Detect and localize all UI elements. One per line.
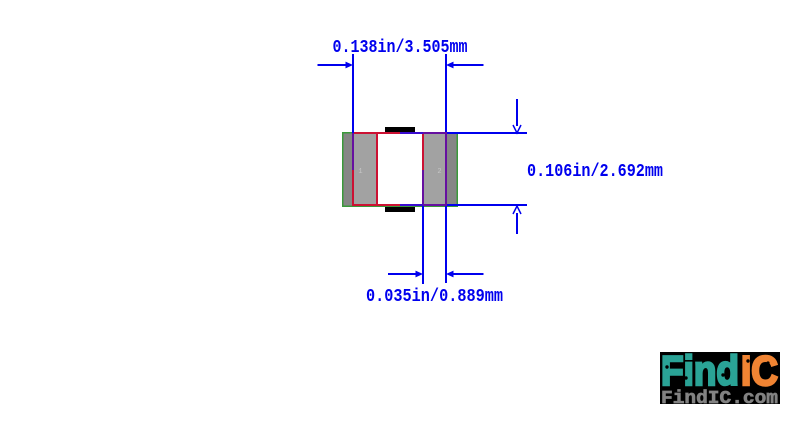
- svg-text:Find: Find: [661, 347, 739, 394]
- svg-text:0.138in/3.505mm: 0.138in/3.505mm: [333, 37, 468, 58]
- svg-text:1: 1: [358, 168, 362, 176]
- svg-text:0.106in/2.692mm: 0.106in/2.692mm: [527, 161, 663, 182]
- svg-text:FindIC.com: FindIC.com: [661, 389, 778, 409]
- svg-text:IC: IC: [741, 347, 778, 394]
- svg-text:2: 2: [437, 168, 441, 176]
- svg-text:0.035in/0.889mm: 0.035in/0.889mm: [366, 286, 503, 307]
